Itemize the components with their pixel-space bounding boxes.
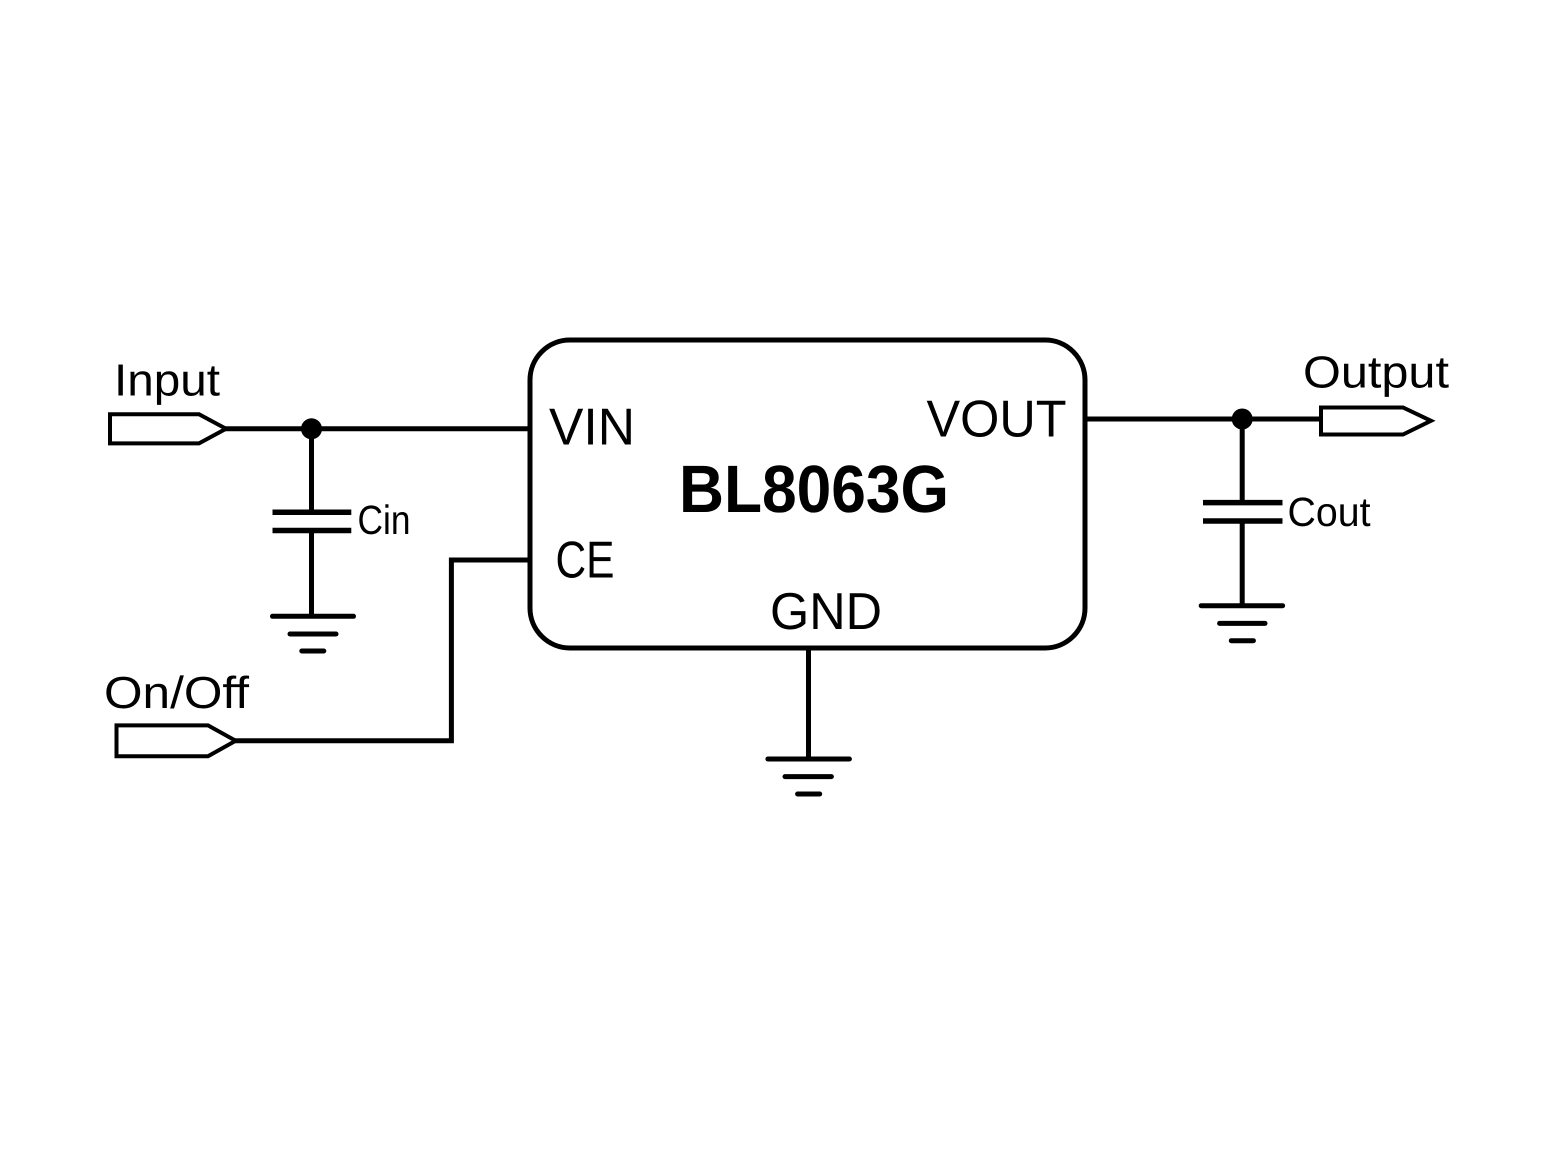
pin label CE (556, 531, 615, 589)
label On/Off (104, 667, 250, 718)
ground under Cin (273, 616, 354, 651)
label Output (1303, 347, 1450, 398)
port Input connector (110, 414, 226, 443)
ground under Cout (1201, 606, 1282, 641)
pin label VOUT (927, 391, 1067, 449)
node junction output/Cout (1232, 409, 1253, 430)
IC U1 BL8063G body (530, 340, 1085, 648)
svg-text:CE: CE (556, 531, 615, 589)
label Cin (358, 497, 411, 543)
IC U1 label BL8063G (679, 452, 949, 527)
node junction input/Cin (301, 418, 322, 439)
label Cout (1288, 489, 1372, 535)
svg-text:VOUT: VOUT (927, 391, 1067, 449)
wire VOUT to Output (1085, 417, 1323, 422)
svg-text:BL8063G: BL8063G (679, 452, 949, 527)
pin label VIN (549, 398, 635, 456)
pin label GND (770, 583, 882, 641)
svg-text:Cin: Cin (358, 497, 411, 543)
label Input (114, 354, 221, 405)
svg-text:Output: Output (1303, 347, 1450, 398)
svg-text:VIN: VIN (549, 398, 635, 456)
wire GND pin (806, 648, 811, 759)
svg-text:Cout: Cout (1288, 489, 1372, 535)
port On/Off connector (117, 725, 236, 756)
capacitor C2 Cout (1203, 419, 1283, 606)
ground under GND pin (768, 759, 850, 794)
svg-text:On/Off: On/Off (104, 667, 250, 718)
svg-text:GND: GND (770, 583, 882, 641)
port Output connector (1321, 408, 1431, 435)
wire On/Off to CE (234, 560, 530, 741)
svg-text:Input: Input (114, 354, 221, 405)
capacitor C1 Cin (273, 429, 352, 617)
wire Input to VIN (224, 426, 530, 431)
